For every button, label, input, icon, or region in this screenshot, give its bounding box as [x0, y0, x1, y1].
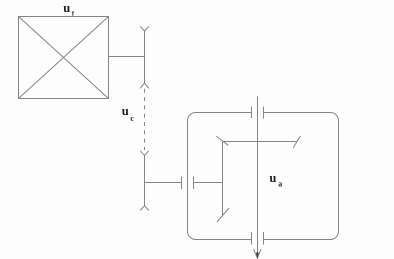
ring link horizontal: [223, 141, 297, 143]
label u_c: [122, 104, 135, 123]
svg-text:u: u: [122, 104, 129, 118]
main input/output shaft: [257, 97, 259, 258]
svg-text:u: u: [269, 171, 276, 185]
svg-text:u: u: [63, 1, 70, 15]
fixed-axis gearbox block: [19, 17, 109, 99]
top wall tick right: [263, 107, 265, 119]
gearbox diagonal 1: [19, 17, 109, 99]
wall tick outside left: [181, 177, 183, 190]
svg-text:a: a: [278, 180, 282, 189]
output arrowhead: [254, 249, 262, 258]
planetary housing box: [188, 113, 339, 240]
top wall tick left: [251, 107, 253, 119]
pulley shaft 2: [144, 155, 146, 206]
top wall gap cover: [252, 111, 264, 114]
shaft 1 bottom fork: [140, 83, 149, 88]
label u_a: [269, 171, 282, 189]
shaft 1 top fork: [140, 26, 149, 31]
bottom wall gap cover: [252, 238, 264, 241]
label u_f: [63, 1, 75, 18]
gearbox diagonal 2: [19, 17, 109, 99]
wire: gearbox output to pulley shaft 1: [109, 56, 145, 58]
wire: shaft 2 to housing wall: [145, 182, 182, 184]
output arrowhead dark tip: [256, 253, 259, 259]
pulley shaft 1: [144, 31, 146, 83]
joint slash top-left: [216, 136, 228, 145]
wall tick inside left: [193, 177, 195, 190]
shaft 2 top fork: [140, 151, 149, 156]
wire: inside left to planet link: [194, 182, 223, 184]
belt/chain dashed link u_c: [144, 89, 146, 150]
planet carrier vertical link: [222, 142, 224, 216]
svg-text:c: c: [130, 114, 134, 123]
joint slash bottom: [217, 208, 229, 222]
bottom wall tick right: [263, 232, 265, 245]
joint slash top-right: [293, 136, 300, 148]
shaft 2 bottom fork: [140, 206, 149, 211]
bottom wall tick left: [251, 232, 253, 245]
